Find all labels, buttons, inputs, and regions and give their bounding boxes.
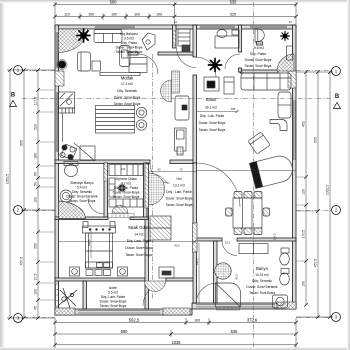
svg-text:485: 485: [231, 107, 236, 111]
salon sofa top: [241, 73, 291, 90]
svg-text:Tavan: Sıva+Boya: Tavan: Sıva+Boya: [100, 304, 127, 308]
svg-text:100: 100: [194, 319, 200, 323]
bed posts: [83, 222, 88, 228]
svg-text:110: 110: [64, 13, 70, 17]
svg-text:Duvar: Sıva+Boya:: Duvar: Sıva+Boya:: [125, 246, 153, 250]
svg-text:500: 500: [121, 329, 129, 334]
svg-text:535: 535: [231, 329, 239, 334]
svg-text:Yatak Odası: Yatak Odası: [128, 225, 151, 230]
pier small-bath wall hatch: [104, 163, 108, 181]
door arc office: [225, 54, 240, 69]
wall interior vertical bath small: [104, 163, 108, 218]
plant star salon: [209, 59, 222, 72]
dim ticks right inner: [304, 70, 308, 307]
svg-text:92,5: 92,5: [235, 274, 239, 280]
dim line right chain outer: [329, 72, 331, 317]
dim ticks left outer: [8, 68, 12, 320]
wall interior hall right lower: [193, 163, 197, 303]
window left upper: [55, 32, 57, 68]
dim line bottom row2: [55, 333, 296, 335]
section line B horizontal: [22, 98, 332, 100]
svg-text:14 m2: 14 m2: [134, 233, 143, 237]
door arc salon entry top: [196, 57, 216, 77]
wall interior vertical salon left: [193, 25, 197, 163]
svg-text:Tavan: Sıva+Boya: Tavan: Sıva+Boya: [245, 64, 272, 68]
salon tv unit: [204, 77, 219, 91]
svg-text:Duvar: Sıva+Boya: Duvar: Sıva+Boya: [114, 96, 141, 100]
salon grand piano: [250, 153, 296, 188]
svg-text:535: 535: [230, 0, 238, 5]
svg-text:Mutfak: Mutfak: [121, 76, 134, 81]
wall top exterior: [55, 25, 296, 29]
WINDOWS (double thin lines): [56, 26, 295, 313]
wall interior office bottom: [240, 70, 278, 73]
dressing wardrobe left strip: [109, 178, 115, 197]
svg-text:1035: 1035: [171, 340, 181, 345]
svg-text:9.5 m2: 9.5 m2: [124, 37, 134, 41]
winter garden quarter hatch: [59, 29, 88, 53]
dressing wardrobe bottom: [109, 199, 143, 207]
banyo square shower: [216, 283, 241, 307]
door arc corridor room: [177, 48, 197, 68]
dark unit narrow room: [182, 45, 190, 52]
svg-text:42,5: 42,5: [174, 244, 180, 248]
DIMENSIONS TOP: [55, 2, 296, 24]
kitchen sink unit: [59, 92, 75, 108]
window top office: [250, 25, 287, 27]
dim line left chain mid: [23, 70, 25, 318]
svg-text:Duvar: Sıva+Boya: Duvar: Sıva+Boya: [116, 46, 143, 50]
DIMENSIONS LEFT: [7, 70, 55, 318]
axis circle 3 right: [332, 313, 341, 322]
svg-text:190,5: 190,5: [195, 258, 199, 265]
svg-text:1052,5: 1052,5: [6, 174, 10, 185]
wall bottom-right exterior: [192, 303, 296, 309]
dim line bottom row3: [55, 344, 296, 346]
door arc kitchen-hall: [150, 163, 170, 183]
svg-text:170,5: 170,5: [273, 233, 277, 240]
bedroom pier hatch: [193, 223, 198, 252]
svg-text:Döş. Seramik: Döş. Seramik: [117, 89, 137, 93]
svg-text:Giyinme Odası: Giyinme Odası: [115, 177, 137, 181]
dim line top row1: [55, 4, 296, 6]
svg-text:Tavan: Sıva-Boya: Tavan: Sıva-Boya: [249, 291, 275, 295]
ebeveyn shower: [59, 201, 86, 219]
wall interior vertical winter garden right: [173, 25, 177, 48]
banyo washer: [273, 295, 288, 308]
shoe cabinet hol: [159, 267, 174, 278]
window top winter garden: [95, 25, 135, 27]
pier bottom-left B: [163, 308, 190, 315]
corner wedge office hatched: [277, 54, 294, 71]
svg-text:6.5 m2: 6.5 m2: [108, 291, 118, 295]
svg-text:Döş : Lak. Parke: Döş : Lak. Parke: [200, 114, 225, 118]
svg-text:10: 10: [174, 20, 178, 24]
wall interior antre left: [83, 281, 87, 309]
door arc antre entry: [143, 283, 166, 306]
svg-text:45: 45: [34, 306, 38, 310]
section line vertical left: [152, 54, 154, 300]
planter circle: [58, 61, 66, 69]
banyo door arc top: [222, 241, 237, 256]
salon sofa corner bend: [270, 120, 287, 131]
dim ticks right outer: [328, 70, 332, 319]
svg-text:452: 452: [302, 121, 306, 127]
svg-text:90: 90: [158, 168, 161, 172]
wall interior bathroom top: [196, 238, 296, 241]
svg-text:Döş: Seramik: Döş: Seramik: [72, 190, 92, 194]
DOOR FANS hatched: [112, 173, 168, 292]
svg-text:50: 50: [34, 182, 38, 186]
dim line right chain inner: [305, 72, 307, 305]
wall interior kitchen bottom: [55, 160, 196, 164]
dim ticks top row2: [53, 15, 298, 19]
pier hall wall hatch: [145, 164, 149, 208]
svg-text:Duvar: Sıva+Seramik: Duvar: Sıva+Seramik: [66, 195, 98, 199]
bed side table right: [118, 267, 128, 276]
window bottom bedroom: [78, 310, 160, 312]
svg-text:17.1 m2: 17.1 m2: [121, 82, 133, 86]
svg-text:Döş: Parke: Döş: Parke: [250, 52, 266, 56]
axis circle 1 left: [14, 66, 23, 75]
window left lower: [56, 284, 59, 306]
svg-text:100: 100: [134, 13, 140, 17]
banyo bidet: [281, 269, 289, 274]
svg-text:100: 100: [34, 197, 38, 203]
salon sofa right: [278, 92, 291, 118]
bedroom wardrobe: [150, 216, 171, 240]
svg-text:Döş. Parke: Döş. Parke: [121, 41, 137, 45]
axis circle 3 left: [14, 314, 23, 323]
stair curved steps: [161, 80, 172, 102]
door arc banyo: [196, 283, 217, 304]
svg-text:117,5: 117,5: [34, 97, 38, 106]
armchair winter garden left: [78, 52, 91, 71]
plant star winter garden: [77, 29, 90, 42]
salon desk: [215, 36, 239, 48]
side table winter garden: [92, 61, 101, 71]
dim line left chain inner: [37, 70, 39, 318]
svg-text:120: 120: [302, 189, 306, 195]
office side unit: [287, 46, 293, 60]
kitchen top cabinet: [129, 58, 147, 73]
svg-text:162,5: 162,5: [87, 239, 91, 246]
wall interior banyo left: [214, 241, 218, 303]
dim ticks left inner: [36, 68, 40, 320]
dim line top row2: [55, 16, 296, 18]
bed bench rects: [86, 270, 93, 276]
dressing wardrobe top: [109, 165, 143, 176]
svg-text:190: 190: [302, 281, 306, 287]
svg-text:562,5: 562,5: [129, 318, 140, 323]
svg-text:Hol: Hol: [177, 177, 182, 181]
svg-text:Banyo: Banyo: [256, 266, 269, 271]
axis 2 stubs: [23, 210, 55, 212]
banyo cabinet: [239, 244, 268, 254]
svg-text:500: 500: [110, 0, 118, 5]
svg-text:520: 520: [34, 124, 38, 130]
dim extension verticals bottom: [54, 318, 56, 348]
svg-text:Döş: Seramik: Döş: Seramik: [252, 279, 272, 283]
bed footboard: [86, 262, 113, 268]
kitchen stove: [60, 144, 77, 160]
DOOR ARCS: [88, 48, 240, 306]
wall piers hatched: [55, 71, 296, 315]
dim extension horizontals left: [7, 69, 55, 71]
dim line left chain outer: [9, 70, 11, 318]
kitchen counter corner diagonal: [74, 143, 95, 161]
DIMENSIONS BOTTOM: [55, 318, 296, 348]
ROOM TEXT: [66, 32, 278, 308]
banyo round shower: [215, 263, 231, 279]
dim extension horizontals right: [296, 71, 333, 73]
svg-text:B: B: [11, 93, 16, 99]
dining table: [233, 198, 262, 228]
svg-text:250: 250: [34, 243, 38, 249]
wall interior winter garden bottom: [128, 52, 196, 55]
svg-text:525: 525: [230, 13, 236, 17]
STAIRS: [161, 71, 180, 102]
wall interior dressing right: [144, 163, 148, 218]
svg-text:595: 595: [20, 140, 24, 146]
svg-text:100: 100: [88, 13, 94, 17]
kitchen dishwasher: [80, 146, 95, 161]
svg-text:30.1 m2: 30.1 m2: [205, 106, 217, 110]
svg-text:32,5: 32,5: [225, 241, 231, 245]
svg-text:Tavan: Sıva+Boya: Tavan: Sıva+Boya: [199, 128, 226, 132]
door arc salon big: [196, 163, 240, 207]
bed headboard: [83, 226, 116, 233]
wall right exterior: [292, 25, 296, 308]
pier bottom-left A: [55, 308, 75, 315]
svg-text:Duvar: Sıva+Boya: Duvar: Sıva+Boya: [113, 191, 140, 195]
svg-text:Kış Bahçesi: Kış Bahçesi: [120, 32, 138, 36]
svg-text:457,5: 457,5: [20, 257, 24, 266]
svg-text:1052,5: 1052,5: [326, 185, 330, 196]
axis circle 1 right: [332, 67, 341, 76]
kitchen chairs rings: [136, 107, 146, 117]
pier bottom-right: [277, 302, 296, 309]
salon armchair: [248, 132, 270, 154]
sofa winter garden: [94, 30, 122, 43]
window left kitchen: [55, 92, 57, 152]
bed body: [86, 233, 113, 268]
svg-text:27,5: 27,5: [34, 274, 38, 281]
wall interior bedroom bottom: [55, 278, 196, 281]
dining chairs bottom: [234, 228, 242, 235]
fan dressing room: [112, 205, 128, 213]
antre sketch mark: [59, 288, 77, 308]
fridge: [175, 128, 187, 151]
svg-text:Döş. Lam. Parke: Döş. Lam. Parke: [101, 295, 126, 299]
svg-text:Tavan: Sıva+Boya: Tavan: Sıva+Boya: [116, 50, 143, 54]
wall bottom-left exterior: [55, 309, 192, 315]
dim line right chain mid: [317, 72, 319, 317]
window right salon: [293, 100, 295, 160]
plant star office: [281, 32, 290, 41]
svg-text:Tavan: Sıva+Boya: Tavan: Sıva+Boya: [69, 199, 96, 203]
svg-text:70: 70: [180, 168, 183, 172]
axis 1 stubs: [23, 70, 55, 72]
wall left exterior: [55, 25, 59, 315]
WALLS: [55, 25, 296, 315]
armchair winter garden right: [120, 46, 131, 67]
svg-text:Tavan: Sıva+Boya: Tavan: Sıva+Boya: [114, 102, 141, 106]
extension lines left chain: [38, 90, 318, 300]
fan hall door: [149, 173, 165, 205]
wall interior vertical hall left: [145, 163, 149, 309]
kitchen bar band: [100, 72, 140, 75]
dining chair left: [226, 208, 233, 216]
ceiling fan dressing room: [118, 184, 126, 192]
svg-text:Teras: Teras: [255, 42, 263, 46]
svg-text:B: B: [335, 94, 340, 100]
dim ticks bottom: [53, 321, 298, 325]
wall interior bedroom top: [55, 217, 148, 220]
closet under stairs: [175, 96, 189, 120]
dim line bottom row1: [55, 322, 296, 324]
dim ticks left mid: [22, 68, 26, 320]
dining chairs top: [226, 192, 270, 235]
svg-text:140: 140: [121, 167, 126, 171]
DIMENSIONS RIGHT: [296, 72, 333, 317]
office chair D: [255, 29, 258, 42]
wall interior vertical office left: [239, 25, 242, 72]
svg-text:10: 10: [289, 20, 293, 24]
fan entry antre: [145, 281, 166, 292]
pier left wall: [55, 71, 64, 86]
dim ticks top row1: [53, 3, 298, 7]
door arc ebeveyn bath: [88, 198, 104, 214]
svg-text:Duvar: Sıva+Boya: Duvar: Sıva+Boya: [100, 300, 127, 304]
pier right wall upper: [288, 71, 296, 88]
svg-text:Antre: Antre: [109, 286, 117, 290]
svg-text:595: 595: [314, 137, 318, 143]
svg-text:Tavan: Sıva+Boya: Tavan: Sıva+Boya: [166, 203, 193, 207]
door arc winter garden-kitchen: [138, 54, 158, 74]
dim ticks right mid: [316, 70, 320, 319]
axis circle 2 left: [14, 206, 23, 215]
axis circle 2 right: [332, 206, 341, 215]
svg-text:180: 180: [34, 153, 38, 159]
svg-text:Duvar: Sıva+Seramik: Duvar: Sıva+Seramik: [246, 285, 278, 289]
ebeveyn toilet: [64, 162, 78, 166]
dining chair right: [263, 208, 270, 216]
svg-text:9,6 m2: 9,6 m2: [254, 46, 264, 50]
stair landing hatch: [172, 71, 180, 93]
banyo toilet: [281, 248, 289, 253]
FURNITURE: [59, 29, 296, 311]
svg-text:170,5: 170,5: [302, 230, 306, 239]
svg-text:90: 90: [34, 172, 38, 176]
svg-text:Duvar: Sıva+Boya: Duvar: Sıva+Boya: [245, 58, 272, 62]
dim extension verticals top: [54, 2, 56, 24]
interior small dims: [59, 110, 297, 303]
bed side table left: [70, 267, 80, 276]
window hatch wall A: [173, 31, 176, 45]
svg-text:13.1 m2: 13.1 m2: [173, 184, 185, 188]
svg-text:Duvar: Sıva+Boya: Duvar: Sıva+Boya: [199, 121, 226, 125]
salon cabinet L: [224, 77, 234, 94]
svg-text:Salon: Salon: [206, 97, 217, 102]
svg-text:100: 100: [34, 289, 38, 295]
svg-text:457,5: 457,5: [314, 259, 318, 268]
window top salon: [200, 25, 235, 27]
ebeveyn sink: [60, 190, 72, 202]
svg-text:5.4 m2: 5.4 m2: [77, 186, 87, 190]
svg-text:Döş. Lam. Parke: Döş. Lam. Parke: [127, 239, 152, 243]
kitchen counter strip: [62, 113, 64, 142]
section line vertical right: [253, 2, 255, 347]
svg-text:10.01 m2: 10.01 m2: [255, 273, 269, 277]
window bottom banyo: [196, 304, 275, 306]
pentagon table winter garden: [142, 33, 155, 50]
axis 3 stubs: [23, 317, 55, 319]
svg-text:100: 100: [111, 13, 117, 17]
dressing threshold: [108, 214, 134, 218]
svg-text:Tavan: Sıva+Boya:: Tavan: Sıva+Boya:: [125, 253, 153, 257]
svg-text:Döş : Lam. Parke: Döş : Lam. Parke: [166, 190, 192, 194]
svg-text:372,6: 372,6: [247, 318, 258, 323]
svg-text:Tavan: Sıva+Boya: Tavan: Sıva+Boya: [113, 195, 140, 199]
kitchen table striped: [96, 106, 135, 134]
svg-text:Ebeveyn Banyo: Ebeveyn Banyo: [70, 181, 93, 185]
svg-text:Duvar: Sıva+Boya: Duvar: Sıva+Boya: [166, 197, 193, 201]
shelf narrow room: [178, 29, 190, 46]
AXIS MARKERS: [14, 66, 341, 323]
svg-text:100: 100: [156, 13, 162, 17]
